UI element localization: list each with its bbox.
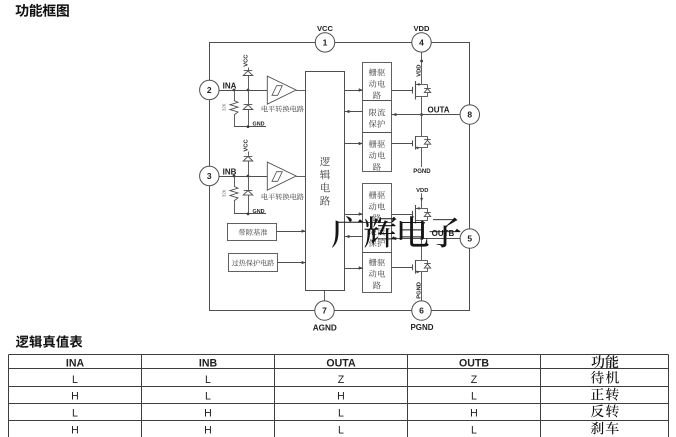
svg-text:PGND: PGND	[410, 323, 433, 332]
transistor Q1 (high-side A)	[391, 81, 430, 100]
wire U1 output	[296, 90, 306, 92]
svg-text:H: H	[71, 391, 79, 403]
pin 8 OUTA	[460, 105, 479, 124]
svg-text:VDD: VDD	[416, 65, 422, 77]
transistor Q2 (low-side A)	[391, 136, 430, 150]
node OUTA	[420, 113, 423, 116]
pin 2 INA	[200, 80, 237, 99]
wire D2 to GND rail A	[248, 110, 250, 127]
svg-text:5: 5	[467, 234, 472, 244]
title 功能框图	[16, 4, 69, 17]
wire Q4 source to pin 6	[421, 272, 423, 301]
IC boundary box	[210, 43, 470, 311]
label 电平转换电路 A	[262, 105, 304, 112]
svg-text:INB: INB	[223, 168, 237, 177]
label PGND (rotated) bridge B	[417, 282, 423, 299]
svg-text:H: H	[71, 425, 79, 437]
svg-text:2: 2	[207, 85, 212, 95]
diode D2 (GND to INA)	[243, 105, 253, 110]
label 限流保护 A	[369, 108, 385, 127]
diode D4 (GND to INB)	[243, 191, 253, 196]
svg-text:OUTA: OUTA	[326, 358, 356, 370]
diode D3 (INB to VCC)	[243, 156, 253, 161]
svg-text:PGND: PGND	[413, 169, 431, 175]
svg-text:OUTB: OUTB	[459, 358, 489, 370]
pin 4 VDD	[412, 24, 431, 52]
svg-text:L: L	[471, 425, 477, 437]
svg-text:AGND: AGND	[313, 323, 337, 332]
svg-text:INA: INA	[66, 358, 85, 370]
wire thermal to logic	[278, 261, 306, 264]
label 32K R1	[222, 103, 227, 111]
wire logic to driver A-low	[345, 142, 363, 145]
svg-text:PGND: PGND	[417, 282, 423, 299]
label OUTB	[432, 229, 455, 238]
table title 逻辑真值表	[16, 335, 83, 348]
bandgap block 带隙基准	[228, 224, 277, 241]
svg-text:GND: GND	[253, 209, 265, 215]
svg-text:L: L	[338, 407, 344, 419]
pin 6 PGND	[410, 301, 433, 332]
pin 7 AGND	[313, 301, 337, 332]
GND rail A	[234, 125, 266, 128]
VCC label (rotated) input A	[244, 54, 250, 67]
svg-text:L: L	[205, 374, 211, 386]
label 栅驱动电路 (top B)	[369, 191, 385, 222]
svg-text:H: H	[204, 425, 212, 437]
svg-text:7: 7	[322, 306, 327, 316]
resistor R2 (INB pulldown)	[230, 176, 238, 214]
wire bandgap to logic	[277, 229, 306, 232]
svg-text:VDD: VDD	[413, 24, 430, 33]
svg-text:6: 6	[419, 306, 424, 316]
table data row 2	[71, 388, 619, 403]
label 电平转换电路 B	[262, 193, 304, 200]
label PGND A	[413, 169, 431, 175]
watermark 广辉电子	[332, 216, 461, 248]
svg-text:1: 1	[323, 38, 328, 48]
svg-text:GND: GND	[253, 122, 265, 128]
wire node to D2	[248, 90, 250, 104]
svg-text:L: L	[338, 425, 344, 437]
label 32K R2	[222, 189, 227, 197]
wire D4 to GND rail B	[248, 195, 250, 214]
truth table grid	[9, 355, 669, 437]
transistor Q3 (high-side B)	[391, 205, 430, 224]
pin 3 INB	[200, 166, 237, 185]
wire OUTA to Q2	[421, 115, 423, 137]
label GND A	[253, 122, 265, 128]
label VDD (rotated) bridge A	[416, 65, 422, 77]
GND rail B	[234, 213, 266, 216]
wire node to D4	[248, 176, 250, 190]
svg-text:VCC: VCC	[244, 54, 250, 67]
wire VCC stub B	[248, 152, 250, 156]
wire Q2 source down	[421, 148, 423, 167]
svg-text:INB: INB	[199, 358, 218, 370]
svg-text:Z: Z	[471, 374, 478, 386]
node VDD junction A	[420, 60, 423, 63]
wire VDD drop from pin 4	[421, 52, 423, 84]
svg-text:L: L	[72, 407, 78, 419]
label 栅驱动电路 (bottom B)	[369, 258, 385, 289]
wire OUTB	[391, 237, 460, 240]
label OUTA	[428, 105, 450, 114]
wire Q1 source to OUTA	[421, 97, 423, 115]
table data row 1	[72, 371, 619, 386]
diode D1 (INA to VCC)	[243, 71, 253, 76]
wire logic to pin 7 AGND	[324, 290, 326, 301]
label 栅驱动电路 (bottom A)	[369, 140, 385, 171]
svg-text:H: H	[337, 391, 345, 403]
wire current-limit A to logic	[345, 110, 363, 113]
wire current-limit B to logic	[345, 235, 363, 238]
svg-text:INA: INA	[223, 82, 237, 91]
wire VCC stub A	[248, 68, 250, 71]
svg-text:L: L	[471, 391, 477, 403]
svg-text:Z: Z	[338, 374, 345, 386]
node INB junction dots	[233, 175, 250, 178]
svg-text:3: 3	[207, 171, 212, 181]
VCC label (rotated) input B	[244, 139, 250, 152]
wire INA input	[219, 90, 267, 92]
wire INB input	[219, 176, 267, 178]
pin 5 OUTB	[460, 229, 479, 248]
wire D1 to node	[248, 76, 250, 90]
node INA junction dots	[233, 89, 250, 92]
svg-text:VCC: VCC	[317, 24, 334, 33]
svg-text:VDD: VDD	[416, 188, 428, 194]
wire OUTB to Q4	[421, 239, 423, 261]
svg-text:L: L	[72, 374, 78, 386]
svg-text:H: H	[204, 407, 212, 419]
gate driver stack A box	[363, 63, 392, 172]
gate driver stack B box	[363, 184, 392, 293]
svg-text:H: H	[470, 407, 478, 419]
label 限流保护 B	[369, 228, 385, 247]
wire VDD stub B arrow	[420, 193, 423, 208]
svg-text:32K: 32K	[222, 103, 227, 111]
svg-text:L: L	[205, 391, 211, 403]
pin 1 VCC	[315, 24, 334, 52]
svg-text:4: 4	[419, 38, 424, 48]
logic block 逻辑电路	[306, 72, 345, 291]
table data row 3	[72, 404, 619, 419]
table data row 4	[71, 422, 619, 437]
transistor Q4 (low-side B)	[391, 260, 430, 274]
wire U2 output	[296, 176, 306, 178]
wire logic to driver A-high	[345, 88, 363, 91]
op-amp U2 (level shift B)	[267, 162, 296, 190]
label VDD bridge B	[416, 188, 428, 194]
wire logic to driver B-low	[345, 266, 363, 269]
svg-text:8: 8	[467, 110, 472, 120]
wire Q3 source to OUTB	[421, 221, 423, 239]
wire logic to driver B-high	[345, 212, 363, 215]
wire D3 to node	[248, 161, 250, 176]
thermal block 过热保护电路	[229, 254, 278, 272]
svg-text:OUTA: OUTA	[428, 105, 450, 114]
wire OUTA	[391, 113, 460, 116]
resistor R1 (INA pulldown)	[230, 90, 238, 127]
op-amp U1 (level shift A)	[267, 76, 296, 104]
label 栅驱动电路 (top A)	[369, 68, 385, 99]
svg-text:VCC: VCC	[244, 139, 250, 152]
label GND B	[253, 209, 265, 215]
node OUTB	[420, 237, 423, 240]
svg-text:OUTB: OUTB	[432, 229, 455, 238]
table header row	[66, 355, 619, 370]
svg-text:32K: 32K	[222, 189, 227, 197]
